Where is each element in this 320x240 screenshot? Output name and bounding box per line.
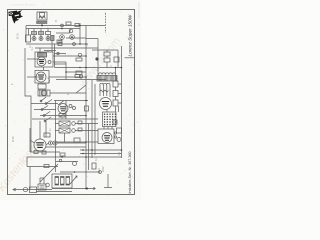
junction dots (41, 25, 122, 190)
cluster A resistors (32, 32, 37, 35)
mid right column components x76-86 (78, 53, 82, 57)
aux small vertical bottom right (107, 174, 109, 188)
tube V2 (36, 72, 46, 82)
speaker top-left (37, 12, 47, 20)
drop to tube V1 (51, 41, 53, 53)
title underline (125, 57, 135, 59)
extra verticals mid-left (55, 101, 57, 173)
IF coil above tube V1 (38, 53, 47, 57)
output choke bar (37, 21, 48, 24)
coil2 (100, 83, 110, 85)
tiny value labels (11, 19, 121, 172)
grid box dial lamps (103, 112, 117, 127)
rails y115 y119 (40, 115, 86, 117)
dashed vertical top-right (105, 13, 107, 33)
top rail 2 (26, 28, 80, 30)
tube V5 mid (58, 104, 68, 114)
rail y100 (54, 100, 88, 102)
rail y44 (26, 43, 88, 45)
tube V3 (100, 98, 112, 110)
tube V4 (102, 133, 112, 143)
rail y67 (55, 67, 122, 69)
scan gray cast overlay (0, 0, 141, 200)
cluster E top-right (92, 49, 118, 51)
rail y142 (56, 141, 98, 143)
right column F components (113, 81, 118, 87)
tube V1 (37, 57, 46, 66)
inner left vertical box edge (25, 48, 31, 152)
tube V4 box (98, 129, 114, 144)
top mid components on rail (61, 24, 64, 27)
verticals x86 x98 (85, 26, 87, 121)
diagonal switch (76, 85, 86, 93)
Lorenz logo (black falcon emblem) top-left (8, 10, 23, 24)
paper noise (2, 4, 140, 199)
antenna coil left (26, 35, 31, 42)
bottom mid rails (56, 161, 78, 163)
cluster A trimmer circles (32, 37, 36, 41)
potentiometer arrow (70, 176, 77, 184)
IF transformer D (38, 84, 46, 89)
tube V2 box (35, 71, 49, 84)
long right vertical (121, 46, 123, 158)
border frame (8, 10, 135, 195)
rail y47-48 (35, 47, 98, 49)
left drop wires (25, 26, 27, 43)
schematic wiring (13, 12, 122, 193)
band switch rails (31, 103, 58, 105)
mid-bottom X-boxes (IF transformers) (59, 121, 70, 126)
power transformer (52, 174, 72, 188)
parallel verticals center-right (85, 120, 87, 189)
zigzag resistor (100, 90, 109, 92)
top rail 1 (26, 25, 106, 27)
bottom buses (13, 189, 52, 191)
lower-left tube cluster (39, 121, 41, 139)
right column small parts upper (114, 57, 119, 62)
faint scan smudge right margin (138, 2, 140, 18)
bottom-right merge rails (80, 149, 122, 151)
paper background (0, 0, 141, 200)
verticals left of tube3 (91, 80, 93, 158)
rail y79 (56, 79, 106, 81)
band switch contacts (41, 97, 52, 121)
bottom-left mains arrow (13, 188, 16, 191)
tube V1 box (35, 52, 53, 67)
coil1 + core (99, 73, 116, 75)
